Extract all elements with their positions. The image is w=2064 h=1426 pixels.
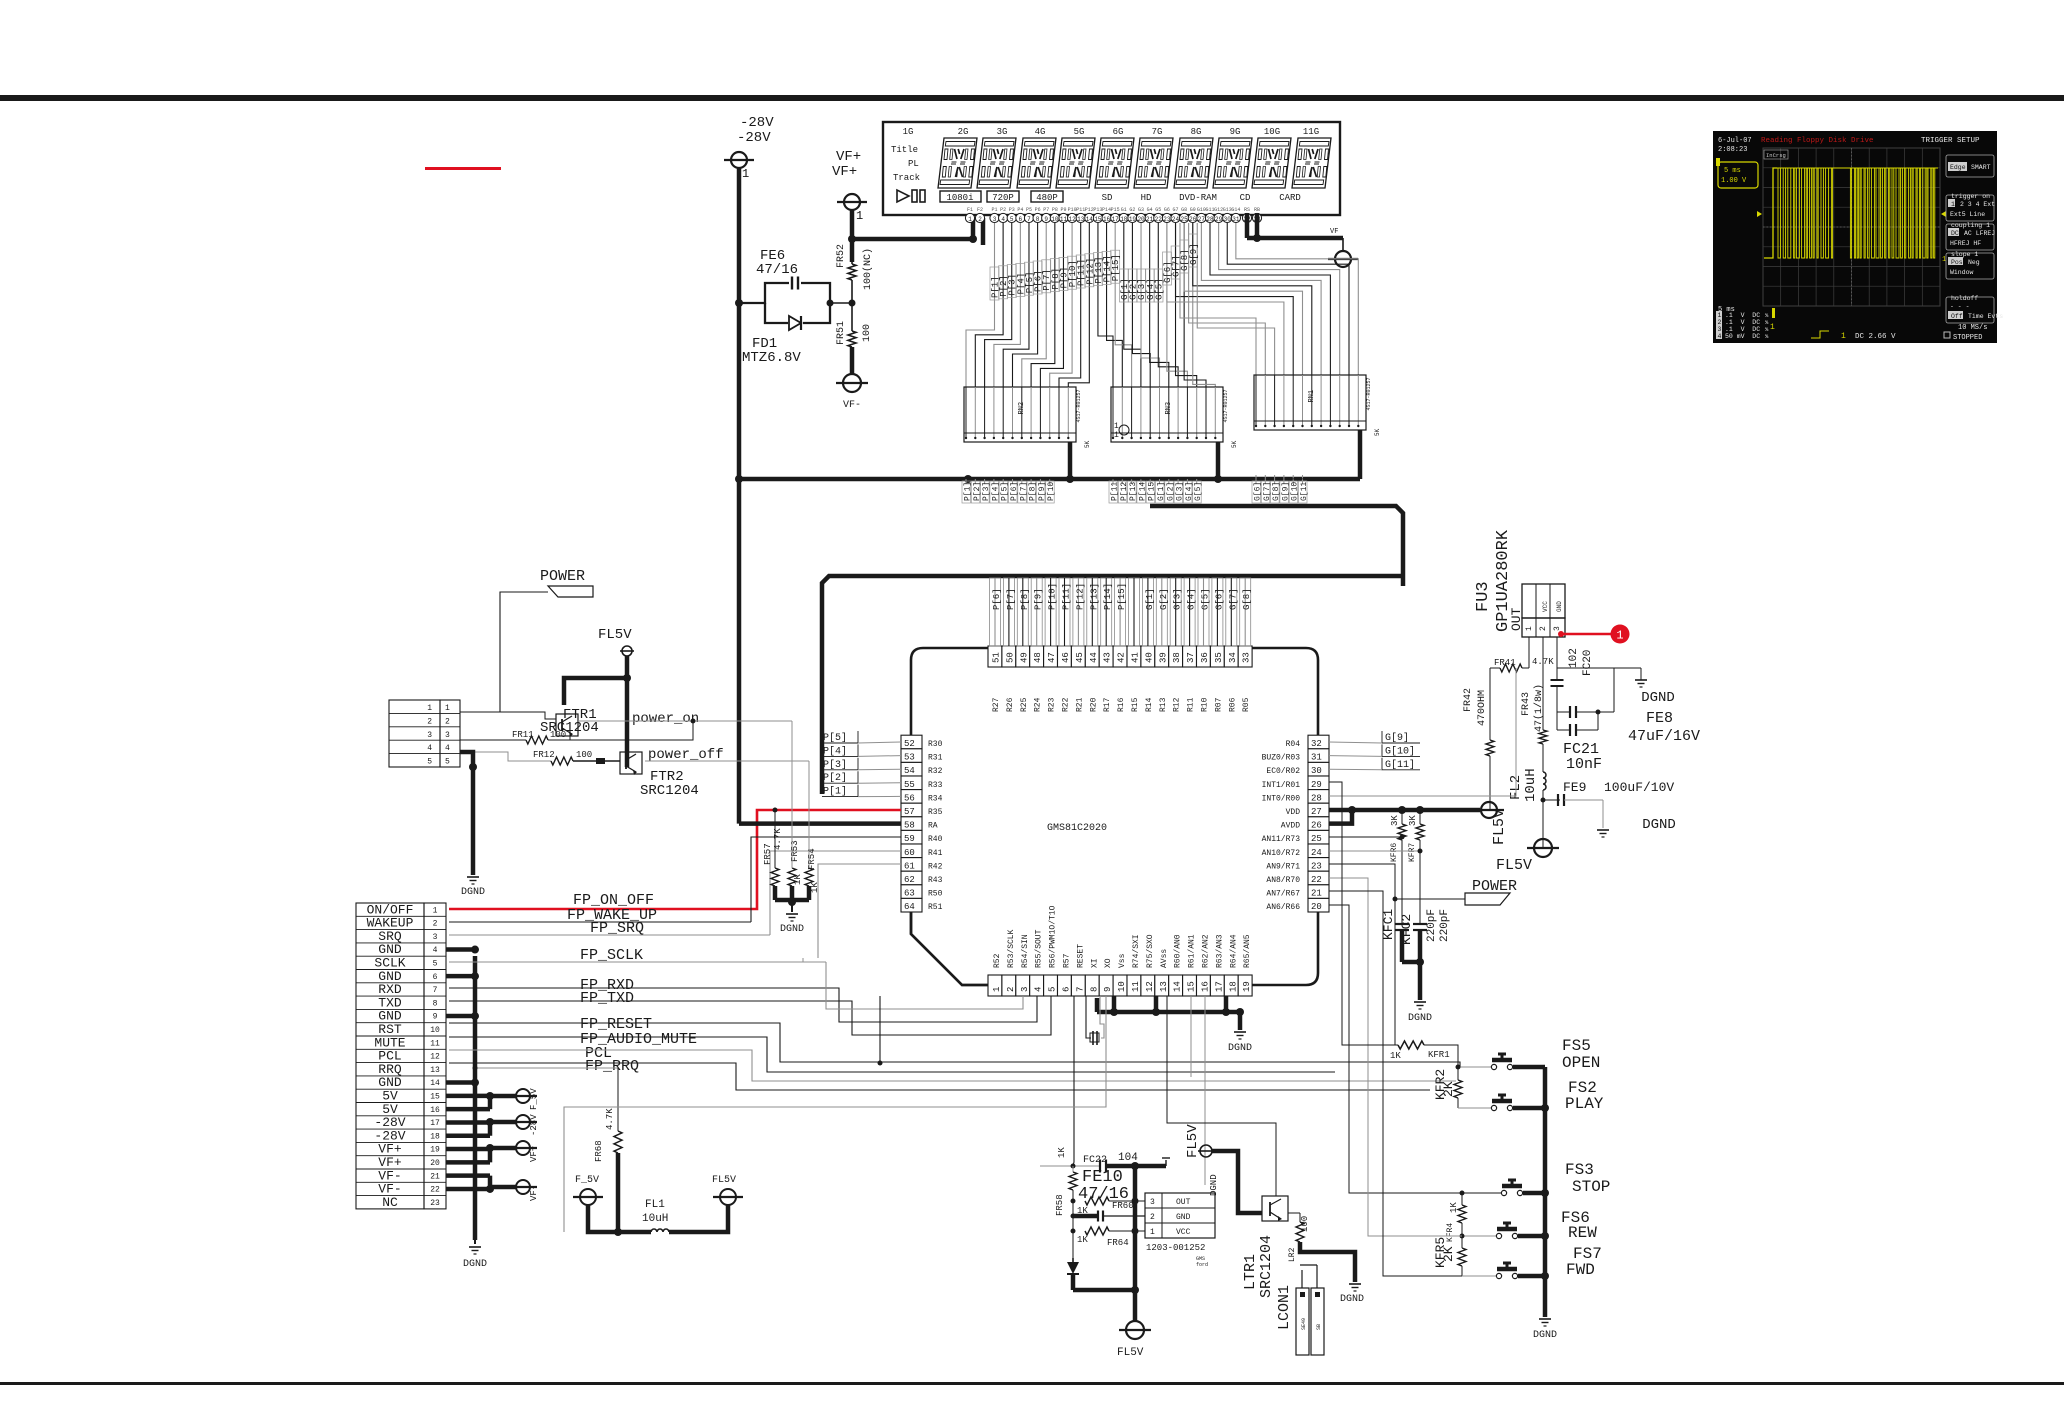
svg-text:22: 22: [430, 1186, 440, 1195]
svg-text:5 ms: 5 ms: [1724, 167, 1741, 175]
capacitor FE9 100uF/10V: [1541, 798, 1546, 803]
svg-text:470OHM: 470OHM: [1477, 690, 1488, 726]
svg-text:3: 3: [1553, 626, 1562, 631]
svg-text:G[2]: G[2]: [1159, 588, 1169, 610]
svg-text:P[15]: P[15]: [1117, 583, 1127, 610]
svg-text:11: 11: [1131, 981, 1141, 992]
svg-text:KFC2: KFC2: [1399, 914, 1414, 945]
svg-text:31: 31: [1311, 753, 1322, 763]
svg-text:4.7K: 4.7K: [605, 1108, 615, 1130]
resistor KFR2 2K: [1456, 1065, 1461, 1070]
svg-text:FR60: FR60: [1112, 1201, 1134, 1211]
svg-text:G9: G9: [1190, 207, 1196, 213]
svg-text:VF+: VF+: [836, 149, 861, 165]
svg-text:R06: R06: [1228, 697, 1237, 712]
svg-text:Vss: Vss: [1118, 953, 1127, 968]
svg-text:720P: 720P: [992, 193, 1014, 203]
svg-text:R24: R24: [1034, 697, 1043, 712]
svg-text:slope 1: slope 1: [1951, 251, 1978, 258]
svg-text:R62/AN2: R62/AN2: [1202, 934, 1211, 968]
terminal FL5V lower: [1534, 839, 1552, 857]
svg-text:FR52: FR52: [836, 244, 847, 268]
svg-text:P5: P5: [1026, 207, 1032, 213]
svg-text:G[5]: G[5]: [1194, 482, 1203, 501]
power pair taps to terminals: [446, 1094, 490, 1099]
svg-text:7G: 7G: [1152, 127, 1163, 137]
svg-text:7: 7: [433, 986, 438, 995]
wire VF supply bus A: [737, 477, 1360, 482]
resistor FR68 4.7K: [617, 1068, 619, 1131]
svg-text:G[9]: G[9]: [1189, 243, 1199, 265]
svg-text:9: 9: [433, 1013, 438, 1022]
svg-text:10: 10: [1117, 981, 1127, 992]
svg-text:4S17-R01257: 4S17-R01257: [1366, 377, 1372, 410]
svg-text:13: 13: [1159, 981, 1169, 992]
svg-text:R07: R07: [1214, 697, 1223, 712]
svg-text:15: 15: [430, 1093, 440, 1102]
svg-text:3: 3: [433, 933, 438, 942]
svg-text:24: 24: [1311, 848, 1322, 858]
svg-text:G[11]: G[11]: [1300, 477, 1309, 501]
svg-text:3: 3: [1718, 326, 1722, 333]
MCU left pin column 52..64: [901, 735, 922, 749]
svg-text:34: 34: [1228, 652, 1238, 663]
svg-text:RS: RS: [1244, 207, 1250, 213]
svg-text:R41: R41: [928, 849, 943, 858]
wire connector pin2 GND drop: [460, 752, 473, 875]
svg-text:AN7/R67: AN7/R67: [1266, 890, 1300, 899]
switch FS7 FWD: [1462, 1275, 1496, 1277]
svg-text:VF+: VF+: [832, 164, 857, 180]
svg-text:23: 23: [430, 1199, 440, 1208]
wire RESET loop: [1073, 996, 1074, 1166]
svg-text:P3: P3: [1009, 207, 1015, 213]
svg-text:2: 2: [427, 717, 432, 726]
svg-text:R75/SXO: R75/SXO: [1146, 934, 1155, 968]
svg-text:2: 2: [1718, 319, 1722, 326]
svg-text:AN9/R71: AN9/R71: [1266, 862, 1300, 871]
resistor FR54 1K: [805, 868, 813, 886]
svg-text:R17: R17: [1103, 697, 1112, 712]
svg-text:4: 4: [1718, 333, 1722, 340]
svg-text:STOP: STOP: [1572, 1178, 1610, 1196]
svg-text:1: 1: [968, 216, 972, 223]
svg-text:DC: DC: [1951, 230, 1959, 237]
wire FL5V to LTR1: [1212, 1151, 1262, 1213]
svg-text:FL5V: FL5V: [1491, 809, 1508, 845]
svg-text:16: 16: [1201, 981, 1211, 992]
svg-text:FP_TXD: FP_TXD: [580, 990, 634, 1007]
MCU U? GMS81C2020 body: [911, 648, 1318, 985]
wire RRQ branch: [879, 996, 881, 1063]
svg-text:P2: P2: [1000, 207, 1006, 213]
svg-text:4: 4: [1034, 987, 1044, 992]
svg-text:1: 1: [1114, 431, 1119, 440]
svg-text:6: 6: [1062, 987, 1072, 992]
svg-text:220pF: 220pF: [1439, 909, 1451, 942]
svg-text:R54/SIN: R54/SIN: [1021, 934, 1030, 968]
svg-text:GND: GND: [1176, 1213, 1191, 1222]
svg-text:22: 22: [1155, 216, 1163, 223]
wire FTR1 base/emitter: [460, 712, 556, 719]
svg-text:TRIGGER SETUP: TRIGGER SETUP: [1921, 137, 1980, 145]
svg-text:G[4]: G[4]: [1187, 588, 1197, 610]
wire FP_RESET: [449, 1023, 1491, 1067]
svg-text:P[10]: P[10]: [1047, 477, 1056, 501]
svg-text:2: 2: [1150, 1213, 1155, 1222]
svg-text:R33: R33: [928, 781, 943, 790]
svg-text:P15: P15: [1111, 207, 1120, 213]
svg-text:100: 100: [1300, 1216, 1310, 1232]
svg-text:G14: G14: [1231, 207, 1240, 213]
svg-text:47/16: 47/16: [756, 262, 798, 278]
svg-text:21: 21: [1146, 216, 1154, 223]
wire pin24 tap: [1329, 850, 1420, 852]
svg-text:R12: R12: [1173, 697, 1182, 712]
wire red FP_ON_OFF to pin57: [449, 810, 901, 909]
resistor KFR6 3K: [1398, 806, 1406, 814]
svg-text:FR64: FR64: [1107, 1238, 1129, 1248]
svg-text:FE9: FE9: [1563, 780, 1586, 795]
wire pin29 to KFR1: [1329, 782, 1398, 1045]
ground DGND FR5x: [786, 913, 798, 915]
wire pin59 pin60 taps: [751, 837, 901, 922]
svg-text:1.00 V: 1.00 V: [1721, 177, 1747, 185]
svg-text:AN10/R72: AN10/R72: [1262, 849, 1301, 858]
svg-text:FR57: FR57: [763, 843, 773, 865]
svg-text:SB: SB: [1316, 1324, 1322, 1330]
svg-text:VF: VF: [1330, 228, 1338, 236]
svg-text:NC: NC: [382, 1195, 398, 1210]
svg-text:Pos: Pos: [1951, 259, 1963, 266]
svg-text:6-Jul-07: 6-Jul-07: [1718, 137, 1752, 145]
svg-text:47uF/16V: 47uF/16V: [1628, 728, 1700, 745]
svg-text:22: 22: [1311, 875, 1322, 885]
svg-text:R23: R23: [1048, 697, 1057, 712]
svg-text:61: 61: [904, 861, 915, 871]
svg-text:13: 13: [1077, 216, 1085, 223]
svg-text:50: 50: [1005, 652, 1015, 663]
svg-text:8: 8: [1089, 987, 1099, 992]
svg-text:17: 17: [1112, 216, 1120, 223]
svg-text:FWD: FWD: [1566, 1261, 1595, 1279]
resistor network RN3: [1111, 387, 1223, 442]
svg-text:Off: Off: [1951, 313, 1963, 320]
wire fan from VFD pins to resistor networks: [966, 223, 995, 387]
svg-text:9: 9: [1103, 987, 1113, 992]
svg-text:56: 56: [904, 793, 915, 803]
svg-text:G[1]: G[1]: [1145, 588, 1155, 610]
svg-text:Reading Floppy Disk Drive: Reading Floppy Disk Drive: [1761, 137, 1874, 145]
ground DGND FCN: [467, 876, 479, 878]
svg-text:FL5V: FL5V: [712, 1175, 736, 1186]
svg-text:R32: R32: [928, 767, 943, 776]
wire pin28 to IR out: [1329, 668, 1516, 796]
svg-text:LCON1: LCON1: [1276, 1285, 1293, 1330]
svg-text:35: 35: [1214, 652, 1224, 663]
svg-text:3: 3: [427, 731, 432, 740]
svg-text:G4: G4: [1147, 207, 1153, 213]
svg-text:3G: 3G: [997, 127, 1008, 137]
svg-text:BUZ0/R03: BUZ0/R03: [1262, 754, 1301, 763]
MCU right pin column 32..20: [1308, 735, 1329, 749]
wire FR5x common to DGND: [775, 898, 809, 903]
svg-text:3: 3: [993, 216, 997, 223]
svg-text:P8: P8: [1052, 207, 1058, 213]
svg-text:R60/AN0: R60/AN0: [1174, 934, 1183, 968]
svg-text:R42: R42: [928, 862, 943, 871]
svg-text:31: 31: [1232, 216, 1240, 223]
svg-text:holdoff: holdoff: [1951, 295, 1978, 302]
svg-text:P[6]: P[6]: [992, 588, 1002, 610]
svg-text:28: 28: [1206, 216, 1214, 223]
svg-text:FR43: FR43: [1521, 692, 1532, 716]
svg-text:10uH: 10uH: [1523, 768, 1539, 802]
svg-text:F_5V: F_5V: [529, 1088, 539, 1110]
svg-text:2: 2: [978, 216, 982, 223]
svg-text:R63/AN3: R63/AN3: [1215, 934, 1224, 968]
svg-text:STOPPED: STOPPED: [1953, 334, 1982, 342]
wire FP_SRQ: [449, 934, 770, 936]
svg-text:480P: 480P: [1036, 193, 1058, 203]
svg-text:62: 62: [904, 875, 915, 885]
ground DGND keys: [1539, 1318, 1551, 1320]
svg-text:7: 7: [1027, 216, 1031, 223]
diode FD?: [1072, 1258, 1074, 1262]
svg-text:220pF: 220pF: [1426, 909, 1438, 942]
svg-text:2K: 2K: [1441, 1246, 1456, 1262]
svg-text:17: 17: [430, 1119, 440, 1128]
capacitor FR59: [1073, 1214, 1098, 1219]
svg-text:9: 9: [1044, 216, 1048, 223]
svg-text:20: 20: [1137, 216, 1145, 223]
svg-text:53: 53: [904, 753, 915, 763]
svg-text:19: 19: [430, 1146, 440, 1155]
svg-text:G3: G3: [1138, 207, 1144, 213]
ground DGND under MCU: [1234, 1031, 1246, 1033]
svg-text:1080i: 1080i: [946, 193, 973, 203]
svg-text:P[10]: P[10]: [1048, 583, 1058, 610]
svg-text:5K: 5K: [1231, 440, 1238, 448]
wire LTR1 collector up to pin14 net: [1167, 996, 1276, 1196]
svg-text:5: 5: [433, 960, 438, 969]
svg-text:15: 15: [1187, 981, 1197, 992]
terminal FL5V bottom: [1126, 1321, 1144, 1339]
svg-text:VCC: VCC: [1176, 1228, 1191, 1237]
svg-text:1: 1: [433, 906, 438, 915]
svg-text:50 mV DC: 50 mV DC: [1725, 333, 1760, 340]
svg-text:4: 4: [427, 744, 432, 753]
svg-text:10G: 10G: [1264, 127, 1280, 137]
svg-text:Window: Window: [1950, 269, 1974, 276]
svg-text:-28V: -28V: [737, 130, 771, 146]
resistor LR2 100: [1288, 1212, 1300, 1214]
svg-text:G[7]: G[7]: [1228, 588, 1238, 610]
wire MCU bottom-left body corner: [911, 912, 988, 985]
svg-text:AN6/R66: AN6/R66: [1266, 903, 1300, 912]
terminal VF- left: [843, 374, 861, 392]
svg-text:R26: R26: [1006, 697, 1015, 712]
svg-text:41: 41: [1131, 652, 1141, 663]
svg-text:17: 17: [1214, 981, 1224, 992]
svg-text:1: 1: [1942, 256, 1946, 264]
svg-text:2: 2: [445, 717, 450, 726]
svg-text:-28V: -28V: [740, 115, 774, 131]
svg-text:DGND: DGND: [1642, 817, 1676, 833]
svg-text:1: 1: [1150, 1228, 1155, 1237]
svg-text:5K: 5K: [1084, 440, 1091, 448]
svg-text:G6: G6: [1164, 207, 1170, 213]
svg-text:G[8]: G[8]: [1242, 588, 1252, 610]
svg-text:P[14]: P[14]: [1103, 583, 1113, 610]
resistor FR12 100: [460, 752, 551, 761]
svg-text:63: 63: [904, 889, 915, 899]
svg-text:R31: R31: [928, 754, 943, 763]
wire AVDD hook: [1329, 810, 1352, 824]
junction VFD pin drop: [964, 475, 972, 483]
wire pin22 to REW: [1329, 878, 1462, 1236]
resistor FR53 1K: [788, 868, 796, 886]
svg-text:DGND: DGND: [1533, 1330, 1557, 1341]
svg-text:29: 29: [1215, 216, 1223, 223]
svg-text:OPEN: OPEN: [1562, 1054, 1600, 1072]
svg-text:13: 13: [430, 1066, 440, 1075]
wire LR2 to DGND: [1300, 1242, 1355, 1282]
svg-text:P[7]: P[7]: [1006, 588, 1016, 610]
svg-text:FL5V: FL5V: [1185, 1124, 1201, 1158]
svg-text:PLAY: PLAY: [1565, 1095, 1604, 1113]
svg-text:1: 1: [1951, 201, 1955, 208]
switch FS5 OPEN: [1458, 1066, 1491, 1068]
svg-text:1: 1: [1718, 312, 1722, 319]
wire thick bus around IC top: [822, 576, 1403, 794]
svg-text:23: 23: [1163, 216, 1171, 223]
svg-text:1: 1: [742, 167, 749, 181]
wire pin23 to POWER: [1329, 864, 1465, 899]
svg-text:8: 8: [1036, 216, 1040, 223]
svg-text:FR58: FR58: [1055, 1194, 1065, 1216]
svg-text:43: 43: [1103, 652, 1113, 663]
svg-text:4: 4: [1001, 216, 1005, 223]
svg-text:HFREJ HF: HFREJ HF: [1950, 240, 1981, 247]
svg-text:36: 36: [1200, 652, 1210, 663]
svg-text:R25: R25: [1020, 697, 1029, 712]
svg-text:4G: 4G: [1035, 127, 1046, 137]
svg-text:SRC1204: SRC1204: [640, 783, 699, 799]
resistor KFR4 1K: [1460, 1191, 1465, 1196]
svg-text:27: 27: [1311, 807, 1322, 817]
svg-text:1: 1: [1616, 629, 1623, 643]
svg-text:Track: Track: [893, 173, 920, 183]
svg-text:FE8: FE8: [1646, 710, 1673, 727]
svg-text:R64/AN4: R64/AN4: [1229, 934, 1238, 968]
svg-text:32: 32: [1311, 739, 1322, 749]
fan net name labels: [990, 267, 999, 300]
svg-text:100: 100: [576, 750, 592, 760]
svg-text:KFR7: KFR7: [1408, 843, 1417, 862]
svg-text:6G: 6G: [1113, 127, 1124, 137]
svg-text:1: 1: [427, 704, 432, 713]
MCU top pin row 51..33: [988, 646, 1002, 667]
svg-text:100: 100: [862, 324, 873, 342]
svg-text:- - -: - - -: [1950, 303, 1970, 310]
svg-text:57: 57: [904, 807, 915, 817]
svg-text:P[12]: P[12]: [1075, 583, 1085, 610]
VFD mode tags: [940, 191, 981, 202]
svg-text:R27: R27: [992, 697, 1001, 712]
svg-text:1K: 1K: [1390, 1051, 1401, 1061]
svg-text:1K: 1K: [1449, 1202, 1459, 1213]
VFD play/pause icons: [897, 190, 909, 202]
svg-text:3: 3: [1150, 1198, 1155, 1207]
svg-text:26: 26: [1189, 216, 1197, 223]
svg-text:21: 21: [430, 1172, 440, 1181]
svg-text:10: 10: [1051, 216, 1059, 223]
wire pin21 to FWD: [1329, 891, 1462, 1276]
svg-text:1K: 1K: [1057, 1147, 1067, 1158]
svg-text:58: 58: [904, 821, 915, 831]
svg-text:1G: 1G: [903, 127, 914, 137]
svg-text:8: 8: [433, 999, 438, 1008]
svg-text:18: 18: [1228, 981, 1238, 992]
svg-text:FL5V: FL5V: [1496, 857, 1532, 874]
svg-text:RN1: RN1: [1308, 390, 1316, 403]
svg-text:coupling 1: coupling 1: [1951, 222, 1990, 229]
svg-text:AC LFREJ: AC LFREJ: [1964, 230, 1995, 237]
svg-text:AVss: AVss: [1160, 949, 1169, 968]
wire VF+ to VFD pins: [850, 210, 855, 262]
wire pin15 pin16 stubs: [1190, 996, 1192, 1077]
switch FS3 STOP: [1329, 905, 1501, 1193]
svg-text:RN2: RN2: [1018, 402, 1026, 415]
svg-text:30: 30: [1311, 766, 1322, 776]
svg-text:FC20: FC20: [1582, 650, 1594, 676]
wire thick RA pin58: [739, 821, 901, 826]
svg-text:1K: 1K: [1077, 1235, 1088, 1245]
svg-text:AN11/R73: AN11/R73: [1262, 835, 1301, 844]
svg-text:FL5V: FL5V: [1117, 1347, 1144, 1359]
svg-text:9G: 9G: [1230, 127, 1241, 137]
svg-text:P6: P6: [1035, 207, 1041, 213]
svg-text:5: 5: [427, 758, 432, 767]
svg-text:DGND: DGND: [1340, 1294, 1364, 1305]
svg-text:FS5: FS5: [1562, 1037, 1591, 1055]
svg-text:4: 4: [433, 946, 438, 955]
svg-text:DGND: DGND: [1641, 690, 1675, 706]
wire FP_TXD: [449, 996, 1051, 1035]
svg-text:DGND: DGND: [1408, 1013, 1432, 1024]
svg-text:24: 24: [1172, 216, 1180, 223]
svg-text:Time Evts: Time Evts: [1968, 313, 2003, 320]
svg-text:P[3]: P[3]: [823, 759, 847, 771]
svg-text:R65/AN5: R65/AN5: [1243, 934, 1252, 968]
svg-text:VDD: VDD: [1286, 808, 1301, 817]
svg-text:1K: 1K: [810, 882, 820, 893]
resistor FR51 100: [848, 331, 856, 347]
wire KFC common DGND: [1402, 960, 1420, 965]
svg-text:DGND: DGND: [1209, 1174, 1219, 1196]
svg-text:trigger on: trigger on: [1951, 193, 1990, 200]
svg-text:1K: 1K: [793, 874, 803, 885]
svg-text:G[5]: G[5]: [1201, 588, 1211, 610]
crystal X1: [1086, 996, 1091, 1038]
svg-text:8G: 8G: [1191, 127, 1202, 137]
svg-text:3: 3: [1020, 987, 1030, 992]
svg-text:FL1: FL1: [645, 1199, 665, 1211]
wire FP_AUDIO_MUTE: [449, 1037, 1335, 1072]
transistor LTR1 SRC1204: [1262, 1196, 1288, 1221]
resistor KFR5 2K: [1460, 1234, 1465, 1239]
